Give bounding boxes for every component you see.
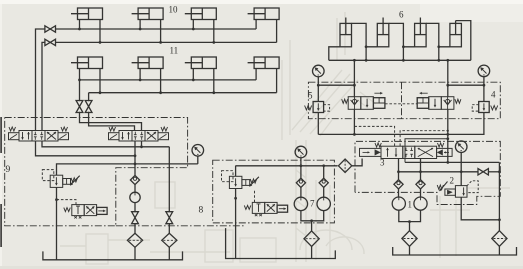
directional valve 3 [360,148,382,156]
check valve pump1a [394,180,403,189]
wire row10 cyl1 left port [79,20,81,30]
wire row10 cyl4 left port [255,20,257,30]
wire return to filter module9 [168,224,170,234]
wire row11 cyl1 left port [79,69,81,80]
cylinder group6 #3 [415,23,427,46]
left margin mark lower [0,204,2,247]
svg-text:1: 1 [408,200,413,210]
wire relief module8 riser [235,166,237,177]
junction P rail [134,154,137,157]
wire relief to gauge line [57,164,198,175]
wire pump7b riser [323,166,325,178]
wire group6 cyl4 bottom port [439,47,450,61]
pilot wire to unload valve module9 [57,200,77,205]
junction row11 bus2 [159,91,162,94]
wire relief module8 drain [235,189,237,259]
check valve module9 [130,175,139,184]
junction gauge line left a [317,84,320,87]
check valve pump1b [416,180,425,189]
pump 1a [392,197,405,210]
unload valve module9 [64,208,71,212]
wire pump7a riser [300,166,302,178]
check valve pump7b [319,178,328,187]
junction row10 bus1 [139,28,142,31]
shutoff valve V10b [45,39,50,45]
wire return filter to tank [168,247,170,259]
junction H1 right riser [446,133,449,136]
bus row10 upper wire [56,28,257,30]
pump 1b [414,197,427,210]
bus group6 wire [329,59,471,61]
directional valve B 4/3 [109,133,120,140]
relief valve module8 [229,176,242,188]
junction row10 bus2 [99,41,102,44]
wire main riser right [447,60,449,96]
cylinder row10 #2 [138,8,163,20]
relief valve 2 [455,186,467,198]
wire group6 cyl4 top wrap [456,21,471,61]
cylinder row10 #3 [191,8,216,20]
shutoff valve right rail [478,169,483,175]
wire row10 cyl2 right port [160,20,162,43]
wire row11 cyl3 left port [192,69,194,80]
junction pumps1 suction [408,220,411,223]
module top-right divider [401,82,403,119]
module 8 boundary box [213,160,335,223]
wire check to pump module9 [134,185,136,193]
pressure line module7-8 [235,165,337,167]
wire gauge line left [318,84,354,86]
wire valve3 portA down [398,158,400,171]
wire main riser left lower [353,109,355,134]
wire gauge stem module7 [300,158,302,166]
pressure gauge right top [478,65,490,77]
shutoff valve V11b [85,101,92,107]
junction bus6 foot3 [402,59,405,62]
cylinder row10 #1 [78,8,103,20]
junction group6 column 2 [365,45,368,48]
junction row11 bus1 [192,79,195,82]
junction group6 column 4 [437,45,440,48]
svg-text:5: 5 [308,91,313,101]
module 9 boundary box [5,118,188,226]
junction bus6 foot4 [437,59,440,62]
wire row11 cyl1 right port [99,69,101,93]
wire valve5 top [317,85,319,101]
wire row11 bus1 down to V11a [79,80,81,101]
filter supply mid [338,159,351,172]
tank right [393,247,517,255]
wire row11 cyl2 left port [139,69,141,80]
junction pilot d4 [447,130,449,132]
wire row10 cyl1 right port [99,20,101,43]
wire check to pump7a [300,188,302,198]
pilot wire d4 [400,131,448,146]
pump 7a [294,197,307,210]
pressure gauge left top [313,65,325,77]
wire pump1b riser [420,172,422,180]
junction row10 bus1 [192,28,195,31]
bus row11 lower wire [89,92,277,94]
bus row11 upper wire [80,79,257,81]
junction bus6 left riser [353,59,356,62]
directional valve A 4/3 [9,133,20,140]
cartridge valve right [417,98,429,109]
junction pump7a [300,164,303,167]
junction gauge line left b [353,84,356,87]
wire gauge line right [448,84,484,86]
wire valve4 top [483,85,485,101]
wire gauge2 stem to valve2 [460,153,462,186]
shutoff valve suction module9 [132,212,139,218]
wire row11 bus2 down to V11b [88,93,90,102]
junction row10 bus1 [78,28,81,31]
junction wrap riser [446,137,449,140]
cylinder row11 #3 [191,57,216,69]
wire filter to tank module9 [134,247,136,259]
junction gauge line [134,163,137,166]
junction pump7b [322,164,325,167]
shutoff valve V10a [45,26,50,32]
reducing valve 4 [479,102,490,113]
junction bus6 foot2 [365,59,368,62]
pilot wire between cartridge valves [385,103,417,105]
junction relief drain [55,198,58,201]
filter module7 [304,231,319,247]
wire group6 cyl2 bottom port [366,47,377,61]
junction row11 bus1 [139,79,142,82]
svg-text:7: 7 [310,199,315,209]
svg-text:9: 9 [6,165,11,175]
wire V10a to left riser [36,29,45,131]
wire row11 cyl2 right port [160,69,162,93]
cylinder row11 #2 [138,57,163,69]
svg-text:11: 11 [170,46,179,56]
wire group6 cyl1 bottom port [329,47,340,61]
pump module9 [130,192,140,202]
tank module9 [43,251,183,259]
wire group6 cyl1 top port [352,23,367,46]
wire filter to valve3 [352,159,362,166]
pump 7b [317,197,330,210]
cylinder row11 #4 [254,57,279,69]
wire valve3 portB down [420,158,422,171]
wire row10 cyl3 right port [213,20,215,43]
junction module8 drain [234,197,237,200]
junction valve B T [140,145,143,148]
left margin mark upper [0,117,2,153]
wire V10b to left riser [42,42,45,130]
unload valve module8 [244,205,251,209]
wire V11b to valve A port [89,112,135,131]
wire valve A P port to pressure rail [36,141,136,156]
shutoff valve return module9 [166,212,173,218]
junction L1 [446,161,449,164]
cylinder row10 #4 [254,8,279,20]
pressure gauge module9 [192,145,204,157]
module boundary extension wire [116,225,245,227]
junction rail b [419,170,422,173]
wire group6 cyl2 top port [389,23,404,46]
drain line H1 [318,133,448,135]
svg-text:10: 10 [169,5,179,15]
junction row11 bus1 [78,79,81,82]
wire filter7 to tank [311,247,313,259]
bus row10 lower wire [56,41,277,43]
pilot wire to unload module8 [254,191,256,203]
wire check to pump1a [398,189,400,197]
cylinder group6 #2 [377,23,389,46]
module lower-right boundary [355,141,500,204]
cylinder group6 #1 [340,23,352,46]
junction H1 left riser [353,133,356,136]
wire valve A T port to tank rail [42,141,169,147]
wire row11 cyl4 right port [276,69,278,93]
wire row10 cyl4 right port [276,20,278,43]
cylinder row11 #1 [78,57,103,69]
junction row11 bus2 [212,91,215,94]
wire gauge stem module9 [197,156,199,164]
wire pump suction module9 [134,203,136,212]
filter right [492,231,507,247]
wire filter1 to tank [409,246,411,255]
filter suction module9 [127,233,142,247]
wire tank rail down [168,147,170,212]
svg-text:8: 8 [199,206,204,216]
junction pumps7 suction [310,219,313,222]
wire suction to filter module9 [134,224,136,234]
svg-text:6: 6 [399,10,404,20]
module top-right boundary box [308,82,500,119]
wire main riser right lower [447,109,449,162]
wire check to pump1b [420,189,422,197]
relief valve module9 [50,175,63,187]
wire pump1a riser [398,172,400,180]
wire valve4 drain [448,113,484,135]
junction row10 bus2 [212,41,215,44]
wire V11a to valve B port [80,112,142,131]
wire suction drop module7 [311,221,313,231]
wire group6 cyl3 top port [426,23,439,46]
filter pumps1 [402,231,417,247]
wire row10 cyl3 left port [192,20,194,30]
filter return module9 [162,233,177,247]
svg-text:2: 2 [450,176,455,186]
tank module7-8 [226,228,336,258]
wire check to pump7b [323,188,325,198]
wire filter right to tank [498,246,500,255]
wire main riser left [353,60,355,96]
junction rail gauge2 [460,170,463,173]
junction row10 bus2 [159,41,162,44]
wire row11 cyl4 left port [255,69,257,80]
cylinder group6 #4 [450,23,462,46]
svg-text:3: 3 [380,158,385,168]
junction drain riser [498,170,501,173]
wire row10 cyl2 left port [139,20,141,30]
junction rail a [397,170,400,173]
pump rail right [399,171,478,173]
wire valve2 drain [461,197,499,220]
wire row11 cyl3 right port [213,69,215,93]
wire gauge stem right top [483,77,485,86]
wire pumps7 suction join [301,211,324,221]
junction gauge line right b [483,84,486,87]
wire L1 to drain riser [405,161,499,163]
pressure gauge near valve3 [455,141,467,153]
junction valve2 drain [498,218,501,221]
wire group6 cyl3 bottom port [403,47,414,61]
junction gauge line right a [446,84,449,87]
wire relief drain to tank [56,187,58,259]
reducing valve 5 [313,102,324,113]
wire pumps1 suction join [399,210,421,221]
junction bus6 right riser [446,59,449,62]
pressure gauge module7 [295,146,307,158]
shutoff valve V11a [76,101,83,107]
wire valve5 drain [317,113,319,135]
wire valve3 wrap loop [405,139,448,163]
wire rail to drain riser [488,171,499,173]
svg-text:4: 4 [491,90,496,100]
junction group6 column 3 [402,45,405,48]
cartridge valve left [342,99,348,103]
check valve pump7a [296,178,305,187]
wire gauge stem left top [317,77,319,85]
wire valve B P port riser [134,141,136,175]
pilot wire d3 [354,126,394,146]
wire suction drop pumps1 [409,222,411,231]
junction row11 bus2 [99,91,102,94]
wire drain riser right [498,162,500,230]
wire valve B T port [141,141,143,147]
